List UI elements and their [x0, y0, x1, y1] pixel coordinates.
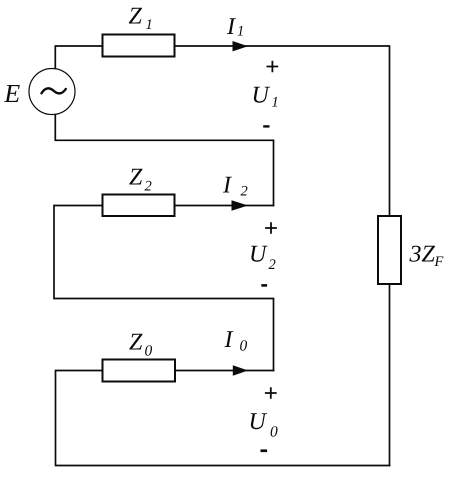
wire right rail upper: [389, 45, 391, 216]
label I2: [223, 177, 248, 196]
wire bottom row: [56, 465, 391, 467]
wire right rail lower: [389, 284, 391, 466]
label Z2: [129, 169, 151, 191]
wire left vertical joining Z2 row to row 4: [53, 205, 55, 300]
wire Z0 row left stub: [56, 370, 104, 372]
label E: [4, 85, 20, 102]
wire source bottom lead: [54, 114, 56, 141]
wire row 4 (U2 minus rail): [54, 298, 274, 300]
label I0: [224, 331, 247, 350]
label U2: [251, 246, 275, 269]
label Z1: [129, 8, 151, 29]
arrow I2 (current direction): [232, 200, 249, 210]
voltage source E1 (AC source circle): [29, 69, 75, 115]
arrow I0 (current direction): [233, 365, 248, 375]
wire top row left segment: [55, 45, 104, 47]
label 3ZF: [409, 246, 443, 266]
node U1 minus: [263, 125, 269, 127]
wire top row right segment: [175, 45, 390, 47]
wire vertical joining row 4 to Z0 row: [273, 299, 275, 372]
wire Z2 row left stub: [54, 205, 103, 207]
label U1: [254, 87, 277, 107]
node U0 plus: [265, 387, 277, 399]
node U2 plus: [265, 222, 277, 234]
wire source top lead: [54, 46, 56, 69]
resistor 3ZF (fault impedance box): [378, 216, 401, 284]
wire Z0 row right segment: [175, 370, 274, 372]
wire vertical joining row2 to Z2 row: [273, 140, 275, 206]
resistor Z2 (impedance box): [103, 195, 175, 217]
label I1: [227, 18, 243, 35]
wire row 2 (U1 minus rail): [55, 139, 275, 141]
node U1 plus: [267, 61, 279, 73]
label U0: [251, 413, 278, 436]
resistor Z0 (impedance box): [103, 360, 176, 382]
wire left vertical joining Z0 row to bottom wire: [55, 370, 57, 467]
node U0 minus: [261, 449, 268, 452]
node U2 minus: [261, 284, 267, 287]
resistor Z1 (impedance box): [103, 35, 175, 57]
wire Z2 row right segment: [175, 205, 275, 207]
arrow I1 (current direction): [233, 41, 249, 51]
label Z0: [129, 334, 152, 356]
